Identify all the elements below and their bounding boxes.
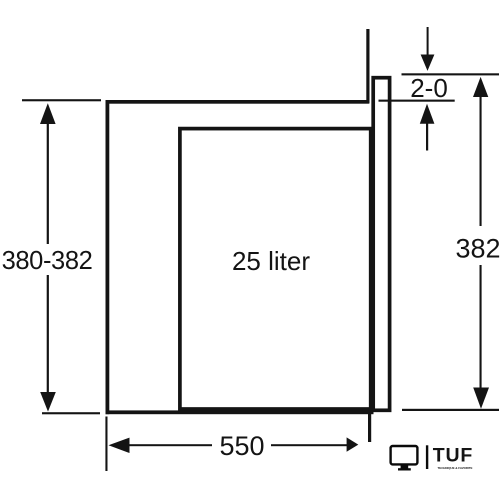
2-0 lower arrow shaft: [426, 123, 428, 151]
382 dimension shaft upper: [480, 96, 482, 226]
550 left extension line: [105, 417, 107, 472]
382 down arrowhead: [473, 388, 489, 409]
380-382 top reference line: [22, 99, 101, 101]
550 right arrowhead: [347, 437, 359, 451]
TUF logo monitor icon: [391, 446, 418, 471]
382 bottom reference line: [402, 409, 499, 411]
svg-text:TECHNIQUE & FAVORITE: TECHNIQUE & FAVORITE: [438, 466, 473, 470]
niche left edge: [106, 100, 110, 414]
niche bottom edge: [106, 410, 374, 414]
svg-text:25 liter: 25 liter: [232, 246, 310, 276]
2-0 upper arrow shaft: [427, 27, 429, 55]
svg-text:380-382: 380-382: [2, 247, 93, 275]
382 dimension shaft lower: [480, 265, 482, 388]
380-382 bottom reference line: [42, 412, 100, 414]
2-0 lower arrowhead (up): [420, 104, 435, 124]
550 dimension line right segment: [271, 444, 347, 446]
380-382 down arrowhead: [40, 392, 56, 412]
380-382 dimension shaft lower: [47, 275, 49, 393]
TUF logo separator bar: [426, 445, 428, 469]
svg-text:550: 550: [219, 431, 264, 461]
2-0 lower reference line: [379, 100, 455, 102]
svg-text:2-0: 2-0: [410, 73, 448, 103]
wall line above niche: [366, 29, 369, 104]
382 up arrowhead: [473, 77, 488, 97]
oven body box (25 liter): [180, 129, 371, 409]
550 right extension line: [368, 414, 371, 442]
svg-text:TUF: TUF: [433, 444, 473, 466]
550 dimension line left segment: [128, 444, 212, 446]
top reference line shared by 2-0 and 382: [402, 73, 500, 75]
2-0 upper arrowhead (down): [421, 55, 435, 71]
niche top edge: [106, 100, 369, 104]
380-382 dimension shaft upper: [47, 123, 49, 244]
380-382 up arrowhead: [40, 103, 56, 124]
svg-text:382: 382: [455, 234, 500, 264]
oven door front panel: [373, 78, 389, 411]
550 left arrowhead: [109, 438, 130, 453]
